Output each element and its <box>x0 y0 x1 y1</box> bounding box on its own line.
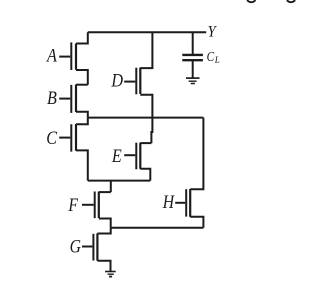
svg-text:G: G <box>70 236 82 256</box>
ground (G source) <box>105 272 116 277</box>
wire: node line (C source / E source / F drain) <box>88 180 151 182</box>
transistor E <box>124 143 151 181</box>
transistor A <box>59 32 88 84</box>
svg-text:F: F <box>67 195 78 215</box>
transistor H <box>175 118 203 228</box>
text fragment (cut-off descender 1) <box>247 0 256 2</box>
svg-text:E: E <box>111 145 122 167</box>
svg-text:A: A <box>46 44 57 66</box>
wire: F drain tap <box>110 181 112 193</box>
svg-text:B: B <box>47 87 57 109</box>
wire: bottom rail (F/G junction to H source) <box>111 227 204 229</box>
svg-text:C: C <box>207 49 215 64</box>
capacitor C_L <box>182 32 203 77</box>
svg-text:C: C <box>46 127 57 149</box>
svg-text:D: D <box>110 69 123 91</box>
svg-text:H: H <box>162 192 176 212</box>
transistor G <box>82 228 111 272</box>
transistor D <box>124 32 152 143</box>
svg-text:L: L <box>214 55 220 65</box>
text fragment (cut-off descender 2) <box>287 0 295 2</box>
ground (capacitor) <box>186 78 200 83</box>
wire: top output rail to Y <box>88 31 206 33</box>
transistor B <box>59 85 88 118</box>
wire: mid rail node (B source / C drain to H drain) <box>88 117 204 119</box>
transistor F <box>82 192 111 228</box>
transistor C <box>59 118 88 181</box>
